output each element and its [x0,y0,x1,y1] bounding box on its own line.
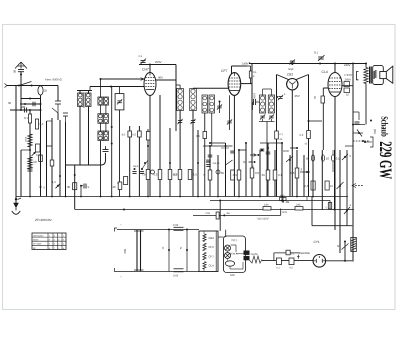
svg-text:4A: 4A [227,212,230,215]
svg-text:20: 20 [113,185,117,189]
svg-text:50pF: 50pF [133,165,139,168]
svg-text:50: 50 [34,160,38,164]
svg-text:40: 40 [262,173,266,177]
svg-text:CY1: CY1 [314,240,320,244]
svg-text:140: 140 [264,204,269,207]
svg-text:10: 10 [330,185,333,188]
svg-text:Stimmplan: Stimmplan [33,234,44,237]
svg-text:0,1: 0,1 [336,157,340,161]
svg-text:250V: 250V [155,60,162,64]
svg-text:ZF=468 kHz: ZF=468 kHz [34,218,52,222]
svg-text:~: ~ [120,223,122,227]
svg-text:1,5: 1,5 [52,180,56,184]
svg-text:2xU50: 2xU50 [251,253,259,256]
svg-text:10: 10 [346,94,349,97]
svg-text:0,5: 0,5 [300,134,304,137]
svg-text:(50): (50) [373,129,376,134]
svg-text:NSF: NSF [230,274,236,277]
svg-text:C(F): C(F) [232,239,237,242]
svg-text:25V: 25V [295,94,300,98]
svg-text:0,1: 0,1 [24,116,28,120]
svg-text:500: 500 [123,249,127,254]
svg-text:2x0,05: 2x0,05 [213,162,221,165]
svg-text:0,1: 0,1 [314,51,318,55]
svg-text:Schaub: Schaub [379,116,389,137]
svg-text:400: 400 [280,195,285,198]
svg-text:110V: 110V [282,211,288,214]
svg-text:Welle: Welle [33,239,39,242]
svg-text:CF7: CF7 [221,69,228,73]
svg-text:Netzfilter: Netzfilter [300,252,311,255]
svg-text:50pF: 50pF [288,68,294,71]
svg-text:CH7: CH7 [142,68,149,72]
svg-text:4,0: 4,0 [193,173,197,177]
svg-text:50: 50 [306,157,310,161]
svg-text:0,1: 0,1 [253,71,257,74]
svg-text:0,5: 0,5 [255,171,259,175]
svg-text:0,5: 0,5 [132,134,136,137]
svg-text:50: 50 [221,171,225,175]
svg-text:CL4: CL4 [209,264,215,268]
svg-text:CB2: CB2 [209,236,215,240]
svg-text:50: 50 [243,161,246,164]
svg-text:50: 50 [8,101,12,105]
svg-text:6000-Ω: 6000-Ω [53,78,63,82]
svg-text:30: 30 [67,185,71,189]
svg-text:Fern:: Fern: [45,78,52,82]
svg-text:C/A: C/A [206,212,211,215]
svg-text:S: S [88,186,90,189]
svg-text:"110-220V": "110-220V" [257,218,270,221]
svg-text:CB2: CB2 [287,73,293,77]
svg-text:0,1: 0,1 [278,173,282,177]
svg-text:245V: 245V [345,78,352,82]
svg-text:CF7: CF7 [209,254,215,258]
svg-text:0,1: 0,1 [139,55,143,58]
svg-text:ZF-Stufe: ZF-Stufe [33,243,42,246]
svg-text:4,0: 4,0 [122,134,126,137]
svg-text:50: 50 [337,245,340,248]
svg-text:30: 30 [13,70,17,74]
svg-text:0,05: 0,05 [173,275,179,278]
svg-text:0,05: 0,05 [173,224,179,227]
svg-text:CH7: CH7 [209,245,215,249]
svg-text:5000: 5000 [283,150,289,153]
svg-text:0,5: 0,5 [291,171,295,175]
svg-text:0,5: 0,5 [174,173,178,177]
svg-text:10: 10 [326,157,330,161]
svg-text:140V: 140V [242,62,249,66]
svg-text:500: 500 [21,105,26,109]
svg-text:240: 240 [296,204,301,207]
svg-text:25: 25 [44,89,48,93]
svg-text:t=P.07: t=P.07 [345,73,353,77]
svg-text:240V: 240V [344,63,351,67]
svg-text:1000: 1000 [253,93,256,99]
svg-text:229 GW: 229 GW [376,141,396,179]
svg-text:40V: 40V [158,76,163,80]
svg-text:0,5: 0,5 [305,185,309,188]
svg-text:CL4: CL4 [322,70,328,74]
svg-text:~: ~ [120,275,122,279]
